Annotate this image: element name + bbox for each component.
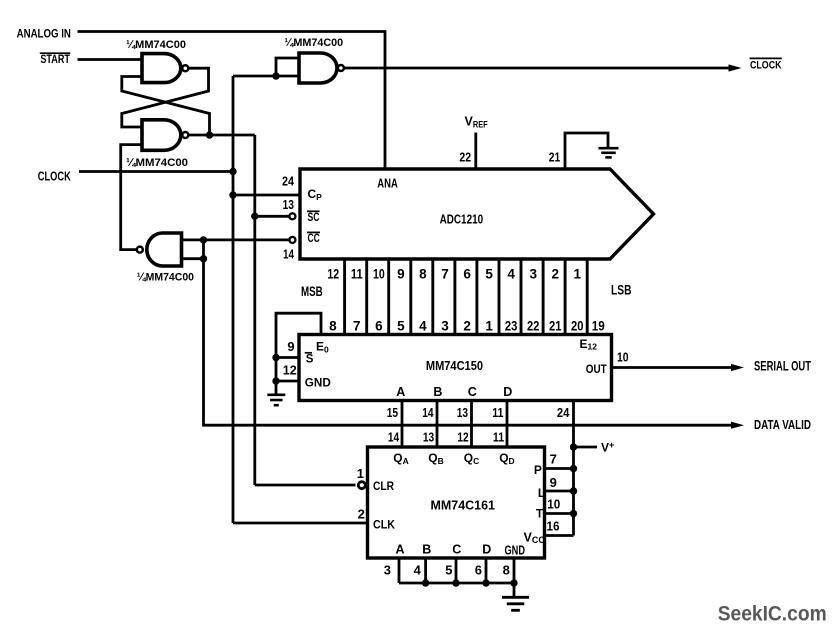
pin label CLR — [373, 479, 394, 493]
pin number 10 of MM74C161 — [547, 497, 560, 512]
pin number 14 of MM74C161 top — [388, 430, 400, 445]
svg-text:21: 21 — [549, 319, 562, 334]
wire SC node vertical (latch output to CLR) — [253, 135, 256, 485]
svg-text:24: 24 — [282, 173, 295, 188]
svg-text:B: B — [433, 385, 442, 399]
svg-text:14: 14 — [388, 430, 400, 445]
svg-text:22: 22 — [459, 150, 471, 165]
svg-text:6: 6 — [375, 319, 383, 334]
svg-text:19: 19 — [592, 319, 605, 334]
wire ADC1210 pin 21 to ground — [565, 133, 608, 169]
net label ANALOG IN — [17, 26, 71, 40]
label 1/4 MM74C00 for U1a — [126, 39, 186, 51]
junction U1c tied inputs — [272, 72, 279, 79]
pin label QA — [393, 451, 408, 466]
junction ground bus at pin 8 — [510, 579, 517, 586]
label 1/4 MM74C00 for U1b — [126, 157, 188, 169]
pin number 22 of ADC1210 — [459, 150, 471, 165]
svg-text:4: 4 — [419, 319, 427, 334]
svg-text:P: P — [534, 463, 542, 477]
pin label ANA — [377, 177, 398, 191]
junction SC node — [251, 213, 258, 220]
svg-text:3: 3 — [529, 266, 537, 281]
svg-text:C: C — [452, 543, 461, 557]
wire ADC1210 pin 12 to MM74C150 pin 8 — [343, 259, 346, 335]
wire stub to MM74C150 pin 9 — [276, 356, 299, 359]
wire U1b output to U1a input (cross coupling) — [122, 77, 210, 136]
svg-text:10: 10 — [617, 350, 629, 365]
svg-text:12: 12 — [283, 363, 297, 378]
svg-text:21: 21 — [549, 150, 561, 165]
label MM74C150 — [426, 358, 483, 373]
svg-text:8: 8 — [419, 266, 427, 281]
wire ADC1210 pin 2 to MM74C150 pin 21 — [564, 259, 567, 335]
wire MM74C161 L pin 9 to V+ bus — [545, 490, 574, 493]
pin label CLK — [373, 517, 395, 531]
wire ADC1210 pin 5 to MM74C150 pin 1 — [498, 259, 501, 335]
svg-text:2: 2 — [358, 506, 365, 521]
wire MM74C150 pin 15 to MM74C161 pin 14 — [401, 401, 404, 448]
svg-text:4: 4 — [507, 266, 515, 281]
pin label L — [538, 486, 545, 500]
pin label SC-bar — [307, 210, 320, 224]
svg-text:1: 1 — [357, 466, 364, 481]
wire clock bus to MM74C161 CLK pin 2 — [233, 522, 368, 525]
svg-text:13: 13 — [423, 430, 434, 445]
junction GND pin 12 on ground bus — [272, 377, 279, 384]
svg-text:START: START — [40, 54, 70, 66]
wire MM74C161 T pin 10 to V+ bus — [545, 512, 574, 515]
net label VREF — [465, 115, 489, 130]
svg-text:GND: GND — [505, 543, 526, 557]
svg-text:12: 12 — [327, 266, 339, 281]
pin label QB — [428, 451, 443, 466]
svg-text:14: 14 — [422, 405, 434, 420]
net label LSB — [611, 283, 632, 298]
net label MSB — [301, 284, 323, 299]
wire U1d input tie — [202, 240, 205, 259]
ground at ADC1210 pin 21 — [599, 148, 619, 157]
svg-text:5: 5 — [397, 319, 405, 334]
mux MM74C150 U3 body — [299, 335, 612, 401]
pin number 20 of MM74C150 top — [571, 319, 584, 334]
wire ANALOG IN to ADC1210 ANA pin — [78, 32, 386, 170]
pin number 12 of MM74C150 — [283, 363, 297, 378]
svg-text:¼MM74C00: ¼MM74C00 — [284, 37, 343, 49]
wire ADC1210 pin 10 to MM74C150 pin 6 — [387, 259, 390, 335]
pin number 9 of ADC1210 bottom — [397, 266, 405, 281]
svg-text:2: 2 — [463, 319, 471, 334]
svg-text:C: C — [468, 385, 477, 399]
svg-text:24: 24 — [557, 405, 570, 420]
wire ADC1210 pin 8 to MM74C150 pin 4 — [431, 259, 434, 335]
wire ADC1210 pin 11 to MM74C150 pin 7 — [365, 259, 368, 335]
junction V+ on supply bus — [570, 443, 577, 450]
svg-text:SERIAL OUT: SERIAL OUT — [754, 358, 812, 373]
svg-text:16: 16 — [547, 518, 560, 533]
nand gate U1b (SR latch lower) — [142, 120, 188, 151]
pin number 6 of ADC1210 bottom — [463, 266, 471, 281]
pin label A of MM74C161 — [396, 543, 405, 557]
svg-text:¼MM74C00: ¼MM74C00 — [126, 157, 188, 169]
net label CLOCK-bar output — [750, 58, 783, 71]
pin label B of MM74C161 — [422, 543, 431, 557]
pin number 12 of MM74C161 top — [457, 430, 468, 445]
pin number 8 of MM74C150 top — [329, 319, 337, 334]
svg-text:22: 22 — [527, 319, 540, 334]
pin number 14 of ADC1210 — [283, 246, 295, 261]
wire ADC1210 pin 7 to MM74C150 pin 3 — [453, 259, 456, 335]
pin label D of MM74C150 — [503, 385, 512, 399]
net label SERIAL OUT — [754, 358, 812, 373]
svg-text:MM74C161: MM74C161 — [431, 498, 496, 513]
pin number 24 of ADC1210 — [282, 173, 295, 188]
junction ground bus at pin 5 — [452, 579, 459, 586]
pin label VCC — [524, 530, 546, 545]
pin number 5 of MM74C150 top — [397, 319, 405, 334]
wire MM74C161 pin 3 to ground bus — [398, 558, 401, 583]
svg-text:9: 9 — [397, 266, 405, 281]
pin label CP — [308, 187, 323, 202]
wire CC node to DATA VALID arrow — [204, 259, 745, 429]
wire U1b output to node SC vertical — [188, 134, 254, 137]
wire ADC1210 pin 3 to MM74C150 pin 22 — [542, 259, 545, 335]
svg-text:13: 13 — [283, 197, 295, 212]
pin label CC-bar — [307, 231, 320, 245]
svg-text:11: 11 — [351, 266, 363, 281]
wire MM74C161 pin 5 to ground bus — [455, 558, 458, 583]
pin label C of MM74C161 — [452, 543, 461, 557]
wire START to U1a input — [78, 58, 143, 61]
label 1/4 MM74C00 for U1d — [137, 271, 194, 283]
wire clock bus vertical — [232, 76, 235, 523]
pin number 7 of ADC1210 bottom — [441, 266, 449, 281]
pin number 2 of MM74C161 — [358, 506, 365, 521]
svg-text:D: D — [503, 385, 512, 399]
label ADC1210 — [440, 211, 484, 226]
junction U1d lower input — [200, 255, 207, 262]
watermark SeekIC.com — [718, 601, 827, 625]
wire MM74C150 pin 24 to V+ bus — [572, 401, 575, 536]
pin label QC — [464, 451, 479, 466]
pin number 16 of MM74C161 — [547, 518, 560, 533]
nand gate U1c (clock inverter) — [299, 53, 344, 83]
junction S-bar pin 9 on ground bus — [272, 354, 279, 361]
pin number 8 of MM74C161 bottom — [503, 563, 510, 578]
wire U1c input tie bracket — [276, 58, 299, 76]
pin number 12 of ADC1210 bottom — [327, 266, 339, 281]
pin number 3 of MM74C150 top — [441, 319, 449, 334]
svg-text:15: 15 — [387, 405, 398, 420]
pin number 9 of MM74C161 — [550, 475, 557, 490]
svg-text:OUT: OUT — [586, 362, 607, 376]
svg-text:8: 8 — [503, 563, 510, 578]
svg-text:5: 5 — [485, 266, 493, 281]
svg-text:4: 4 — [414, 563, 422, 578]
svg-text:D: D — [482, 543, 491, 557]
svg-text:9: 9 — [287, 339, 294, 354]
net label V+ — [601, 440, 614, 455]
counter MM74C161 U4 body — [368, 447, 545, 558]
wire MM74C161 pin 6 to ground bus — [485, 558, 488, 583]
pin number 3 of MM74C161 bottom — [384, 563, 391, 578]
svg-text:8: 8 — [329, 319, 337, 334]
pin number 10 of MM74C150 — [617, 350, 629, 365]
pin number 22 of MM74C150 top — [527, 319, 540, 334]
net label CLOCK input — [38, 169, 71, 184]
svg-text:11: 11 — [492, 405, 503, 420]
wire ADC1210 pin 9 to MM74C150 pin 5 — [409, 259, 412, 335]
svg-text:SeekIC.com: SeekIC.com — [718, 601, 827, 625]
net label START (active low) — [40, 53, 71, 66]
pin number 4 of ADC1210 bottom — [507, 266, 515, 281]
pin label C of MM74C150 — [468, 385, 477, 399]
wire MM74C161 P pin 7 to V+ bus — [545, 467, 574, 470]
wire MM74C150 pin 14 to MM74C161 pin 13 — [436, 401, 439, 448]
pin number 19 of MM74C150 top — [592, 319, 605, 334]
pin label A of MM74C150 — [396, 385, 405, 399]
junction U1b output — [206, 131, 213, 138]
svg-text:ANALOG IN: ANALOG IN — [17, 26, 71, 40]
pin label GND of MM74C150 — [305, 376, 331, 390]
pin number 1 of ADC1210 bottom — [574, 266, 582, 281]
pin number 7 of MM74C150 top — [353, 319, 361, 334]
svg-text:DATA VALID: DATA VALID — [754, 417, 811, 432]
pin number 7 of MM74C161 — [550, 452, 557, 467]
wire U1c output to CLOCK-bar arrow — [345, 64, 742, 71]
svg-text:S: S — [306, 354, 314, 366]
pin label OUT — [586, 362, 607, 376]
pin number 23 of MM74C150 top — [505, 319, 518, 334]
svg-text:7: 7 — [353, 319, 361, 334]
wire MM74C150 pin 11 to MM74C161 pin 11 — [506, 401, 509, 448]
pin number 4 of MM74C150 top — [419, 319, 427, 334]
inverter bubble at ADC1210 CC-bar pin — [289, 237, 295, 243]
pin number 1 of MM74C150 top — [485, 319, 493, 334]
svg-text:12: 12 — [457, 430, 468, 445]
svg-text:A: A — [396, 385, 405, 399]
inverter bubble at ADC1210 SC-bar pin — [289, 213, 295, 219]
wire MM74C161 pin 4 to ground bus — [424, 558, 427, 583]
wire U1a output to U1b input (cross coupling) — [122, 68, 209, 127]
wire V+ stub — [574, 446, 598, 449]
nand gate U1d (mirrored, data-valid) — [137, 233, 182, 266]
svg-text:6: 6 — [475, 563, 482, 578]
svg-text:7: 7 — [550, 452, 557, 467]
wire U1d output feedback to U1b lower input — [121, 145, 142, 250]
pin number 13 of MM74C150 bottom — [457, 405, 468, 420]
junction clock bus to CP — [229, 191, 236, 198]
svg-text:6: 6 — [463, 266, 471, 281]
wire ADC1210 pin 6 to MM74C150 pin 2 — [475, 259, 478, 335]
pin label T — [536, 506, 544, 520]
pin number 13 of ADC1210 — [283, 197, 295, 212]
svg-text:10: 10 — [373, 266, 385, 281]
junction P on supply bus — [570, 465, 577, 472]
svg-text:CLOCK: CLOCK — [750, 60, 782, 72]
ground at MM74C150 S-bar/GND — [267, 395, 285, 405]
wire MM74C161 VCC pin 16 to V+ bus — [545, 534, 574, 537]
label 1/4 MM74C00 for U1c — [284, 37, 343, 49]
pin number 1 of MM74C161 — [357, 466, 364, 481]
pin number 11 of MM74C150 bottom — [492, 405, 503, 420]
svg-text:CLR: CLR — [373, 479, 394, 493]
pin number 3 of ADC1210 bottom — [529, 266, 537, 281]
wire MM74C161 ground bus — [399, 582, 514, 585]
wire ground tail — [513, 583, 516, 596]
svg-text:LSB: LSB — [611, 283, 632, 298]
pin number 2 of MM74C150 top — [463, 319, 471, 334]
svg-text:9: 9 — [550, 475, 557, 490]
wire SC node to MM74C161 CLR pin 1 — [255, 484, 356, 487]
wire U1d upper input / CC line to ADC1210 CC-bar pin 14 — [182, 238, 289, 241]
pin number 11 of ADC1210 bottom — [351, 266, 363, 281]
wire stub to MM74C150 pin 12 — [276, 380, 299, 383]
junction T on supply bus — [570, 510, 577, 517]
pin number 5 of ADC1210 bottom — [485, 266, 493, 281]
pin label QD — [499, 451, 514, 466]
pin number 2 of ADC1210 bottom — [552, 266, 560, 281]
wire E0 strap from S-bar/GND bus to MM74C150 E0 pin — [276, 313, 321, 394]
pin label GND of MM74C161 — [505, 543, 526, 557]
pin number 9 of MM74C150 — [287, 339, 294, 354]
svg-text:23: 23 — [505, 319, 518, 334]
wire clock bus to U1c input — [233, 75, 299, 78]
svg-text:L: L — [538, 486, 545, 500]
pin number 21 of MM74C150 top — [549, 319, 562, 334]
svg-text:1: 1 — [574, 266, 582, 281]
pin number 11 of MM74C161 top — [493, 430, 504, 445]
net label DATA VALID — [754, 417, 811, 432]
svg-text:T: T — [536, 506, 544, 520]
svg-text:20: 20 — [571, 319, 584, 334]
svg-text:13: 13 — [457, 405, 468, 420]
wire SC node to ADC1210 SC-bar pin 13 — [255, 215, 289, 218]
svg-text:2: 2 — [552, 266, 560, 281]
svg-text:11: 11 — [493, 430, 504, 445]
svg-text:MM74C150: MM74C150 — [426, 358, 483, 373]
svg-text:A: A — [396, 543, 405, 557]
pin number 21 of ADC1210 — [549, 150, 561, 165]
pin label B of MM74C150 — [433, 385, 442, 399]
wire VREF to ADC1210 pin 22 — [474, 133, 477, 170]
wire MM74C161 pin 8 to ground bus — [513, 558, 516, 583]
label MM74C161 — [431, 498, 496, 513]
pin number 13 of MM74C161 top — [423, 430, 434, 445]
pin number 5 of MM74C161 bottom — [445, 563, 452, 578]
svg-text:5: 5 — [445, 563, 452, 578]
pin label S-bar — [305, 353, 314, 366]
svg-text:14: 14 — [283, 246, 295, 261]
wire MM74C150 OUT to SERIAL OUT arrow — [612, 364, 745, 371]
svg-text:ADC1210: ADC1210 — [440, 211, 484, 226]
svg-text:1: 1 — [485, 319, 493, 334]
svg-text:¼MM74C00: ¼MM74C00 — [126, 39, 186, 51]
svg-text:CLOCK: CLOCK — [38, 169, 71, 184]
op ADC1210 U2 body — [300, 169, 654, 259]
pin number 10 of ADC1210 bottom — [373, 266, 385, 281]
wire ADC1210 pin 1 to MM74C150 pin 20 — [586, 259, 589, 335]
pin number 4 of MM74C161 bottom — [414, 563, 422, 578]
pin number 6 of MM74C150 top — [375, 319, 383, 334]
svg-text:¼MM74C00: ¼MM74C00 — [137, 271, 194, 283]
svg-text:ANA: ANA — [377, 177, 398, 191]
svg-text:CLK: CLK — [373, 517, 395, 531]
inverter bubble at MM74C161 CLR pin — [358, 482, 365, 489]
wire clock bus to ADC1210 CP pin 24 — [233, 194, 300, 197]
ground at MM74C161 — [502, 597, 529, 610]
pin number 24 of MM74C150 — [557, 405, 570, 420]
pin label D of MM74C161 — [482, 543, 491, 557]
junction L on supply bus — [570, 487, 577, 494]
svg-text:3: 3 — [384, 563, 391, 578]
pin number 8 of ADC1210 bottom — [419, 266, 427, 281]
svg-text:7: 7 — [441, 266, 449, 281]
svg-text:GND: GND — [305, 376, 331, 390]
junction ground bus at pin 6 — [482, 579, 489, 586]
wire MM74C150 pin 13 to MM74C161 pin 12 — [470, 401, 473, 448]
svg-text:10: 10 — [547, 497, 560, 512]
svg-text:MSB: MSB — [301, 284, 323, 299]
pin label E0 — [316, 340, 329, 355]
pin number 15 of MM74C150 bottom — [387, 405, 398, 420]
pin label P — [534, 463, 542, 477]
junction U1d upper input — [200, 236, 207, 243]
pin label E12 — [580, 337, 598, 352]
pin number 6 of MM74C161 bottom — [475, 563, 482, 578]
wire CLOCK input — [79, 170, 233, 173]
svg-text:3: 3 — [441, 319, 449, 334]
wire U1d lower input stub — [182, 257, 204, 260]
nand gate U1a (SR latch upper) — [142, 54, 188, 83]
junction CLOCK at clock bus — [229, 168, 236, 175]
svg-text:B: B — [422, 543, 431, 557]
junction ground bus at pin 4 — [422, 579, 429, 586]
pin number 14 of MM74C150 bottom — [422, 405, 434, 420]
wire ADC1210 pin 4 to MM74C150 pin 23 — [520, 259, 523, 335]
